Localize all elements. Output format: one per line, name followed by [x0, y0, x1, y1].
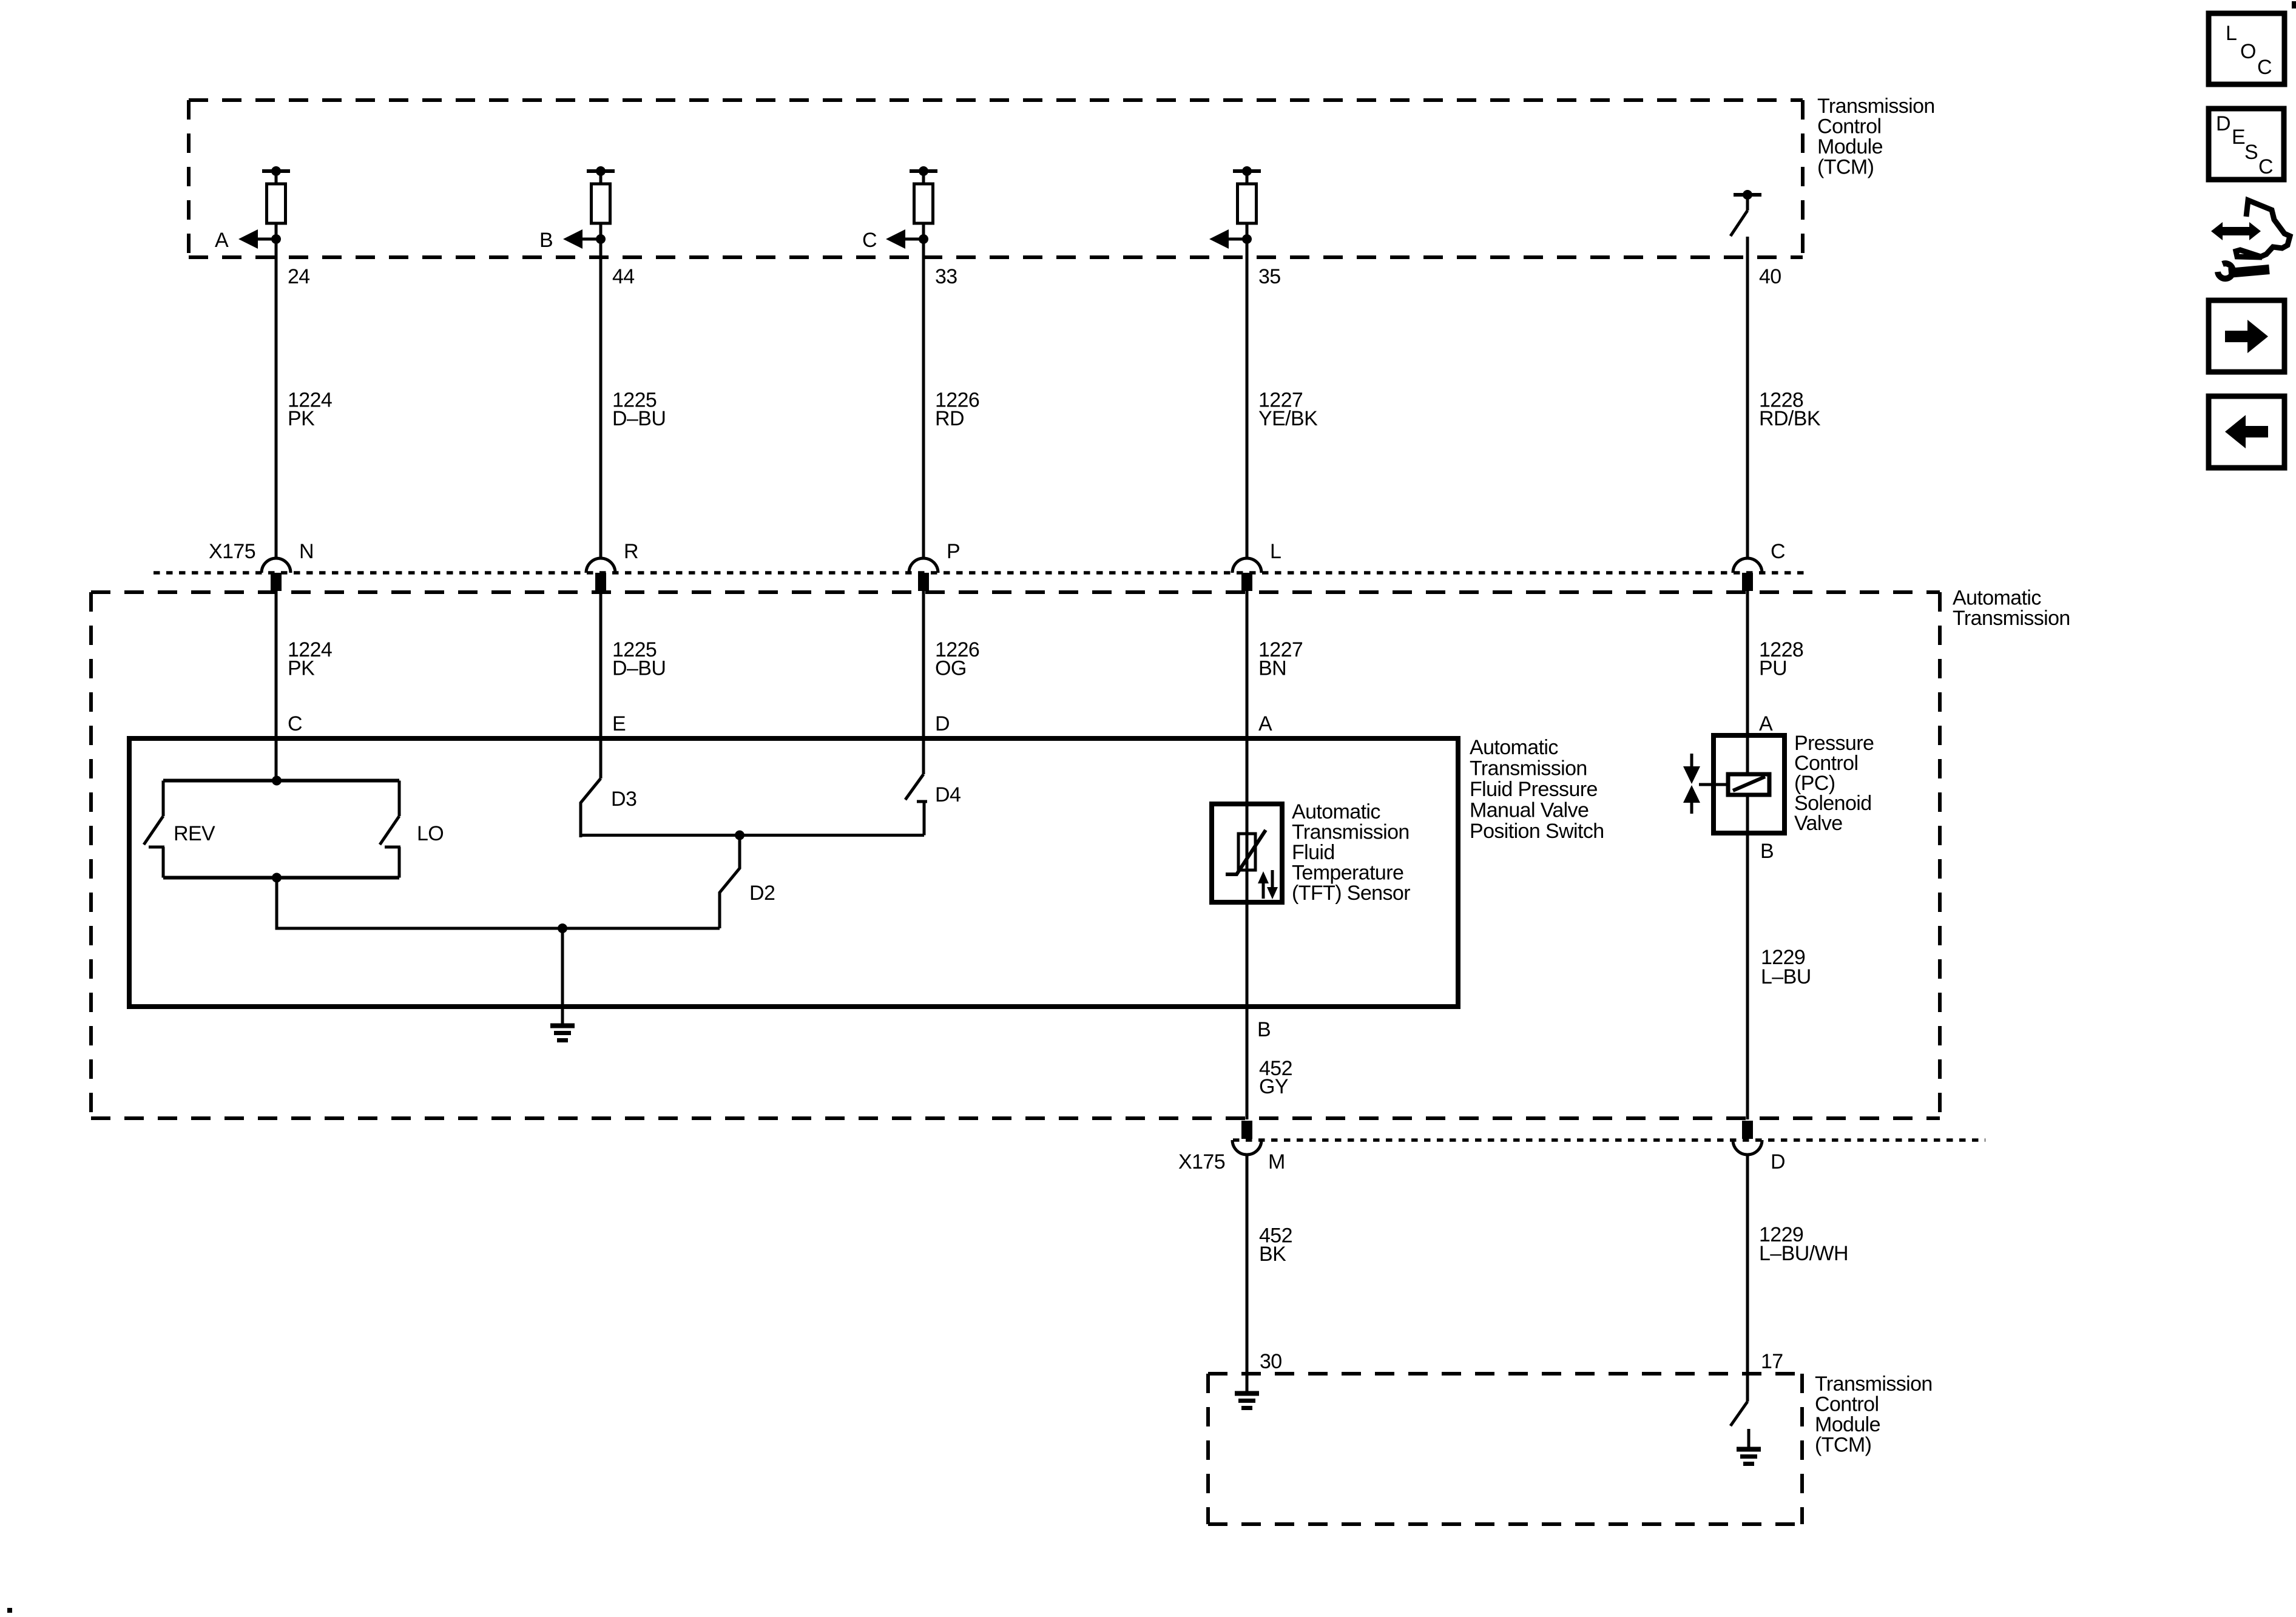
- svg-text:Valve: Valve: [1794, 812, 1843, 835]
- icon: service info (car outline, double arrow, wrench): [2211, 200, 2290, 279]
- wire inside solenoid: [1746, 735, 1749, 833]
- thermistor element: [1226, 830, 1266, 874]
- switch D3: [581, 778, 601, 837]
- wire: PC solenoid B to X175 D (circuit 1229 L-BU): [1746, 833, 1749, 1119]
- label: Automatic Transmission Fluid Pressure Manual Valve Position Switch: [1470, 736, 1604, 843]
- wire: pin 24 to X175 N (circuit 1224 PK): [275, 223, 278, 558]
- TCM module dashed box (bottom): [1208, 1374, 1802, 1524]
- svg-text:RD/BK: RD/BK: [1759, 407, 1821, 430]
- svg-text:RD: RD: [935, 407, 964, 430]
- wire label 1229 L-BU: [1761, 946, 1811, 988]
- svg-text:A: A: [215, 229, 229, 252]
- connector X175 pin M: [1232, 1121, 1261, 1155]
- solenoid coil: [1699, 774, 1769, 795]
- svg-text:D: D: [935, 712, 950, 735]
- wire label 1224 PK (lower): [288, 638, 332, 680]
- svg-text:Automatic: Automatic: [1953, 587, 2041, 610]
- svg-text:C: C: [288, 712, 302, 735]
- svg-text:C: C: [1771, 540, 1785, 563]
- Manual Valve Position Switch box: [129, 738, 1458, 1007]
- svg-text:N: N: [299, 540, 314, 563]
- svg-text:D4: D4: [935, 783, 961, 806]
- icon: next arrow button: [2209, 300, 2284, 372]
- svg-text:PU: PU: [1759, 657, 1787, 680]
- resistor (TCM driver, pin 35): [1233, 166, 1261, 223]
- svg-text:Transmission: Transmission: [1292, 821, 1410, 844]
- svg-text:Automatic: Automatic: [1292, 800, 1380, 823]
- wire: X175 N to switch pin C (circuit 1224 PK): [275, 591, 278, 781]
- wire label 1228 RD/BK (upper): [1759, 389, 1821, 431]
- junction dot (D2 node): [735, 831, 745, 840]
- svg-text:D2: D2: [749, 882, 775, 905]
- svg-text:YE/BK: YE/BK: [1258, 407, 1318, 430]
- svg-text:D: D: [2216, 112, 2231, 135]
- wire label 1228 PU (lower): [1759, 638, 1803, 680]
- Automatic Transmission dashed box: [91, 592, 1940, 1118]
- node: REV/LO parallel loop bars: [163, 781, 399, 878]
- svg-text:BK: BK: [1259, 1243, 1286, 1266]
- icon: back arrow button: [2209, 396, 2284, 468]
- switch REV: [144, 781, 164, 878]
- svg-text:PK: PK: [288, 657, 315, 680]
- wire: X175 L to TFT sensor pin A (circuit 1227 BN): [1246, 591, 1249, 1119]
- connector X175 pin L: [1232, 558, 1261, 591]
- svg-text:Transmission: Transmission: [1815, 1372, 1933, 1396]
- valve flow arrows: [1683, 754, 1700, 814]
- wire label 1227 BN (lower): [1258, 638, 1303, 680]
- ground (TCM pin 17): [1737, 1429, 1761, 1464]
- label: Transmission Control Module (TCM) top: [1817, 95, 1935, 179]
- connector X175 pin P: [909, 558, 938, 591]
- svg-text:Position Switch: Position Switch: [1470, 820, 1604, 843]
- resistor (TCM driver, pin 44): [587, 166, 615, 223]
- svg-text:Fluid Pressure: Fluid Pressure: [1470, 778, 1598, 801]
- svg-text:X175: X175: [209, 540, 255, 563]
- svg-text:30: 30: [1260, 1350, 1282, 1373]
- svg-text:44: 44: [612, 265, 635, 288]
- label: Transmission Control Module (TCM) bottom: [1815, 1372, 1933, 1457]
- wire: pin 33 to X175 P (circuit 1226 RD): [922, 223, 925, 558]
- svg-text:Temperature: Temperature: [1292, 862, 1403, 885]
- connector X175 pin R: [586, 558, 615, 591]
- wire: pin 35 to X175 L (circuit 1227 YE/BK): [1246, 223, 1249, 558]
- switch (TCM driver, pin 40): [1730, 190, 1761, 236]
- icon: LOC button: [2209, 13, 2284, 84]
- svg-text:D–BU: D–BU: [612, 657, 666, 680]
- wire: ground drop: [561, 928, 564, 1024]
- svg-text:33: 33: [935, 265, 957, 288]
- icon: DESC button: [2209, 109, 2284, 180]
- page mark (bottom left): [7, 1608, 12, 1613]
- label: Pressure Control (PC) Solenoid Valve: [1794, 732, 1874, 835]
- svg-text:REV: REV: [174, 822, 215, 845]
- svg-text:L: L: [2226, 22, 2237, 45]
- svg-text:X175: X175: [1178, 1150, 1225, 1173]
- svg-text:L: L: [1270, 540, 1281, 563]
- svg-text:40: 40: [1759, 265, 1781, 288]
- switch LO: [380, 781, 400, 878]
- svg-text:BN: BN: [1258, 657, 1286, 680]
- label: Automatic Transmission: [1953, 587, 2070, 630]
- PC solenoid valve box: [1714, 735, 1784, 833]
- svg-text:17: 17: [1761, 1350, 1783, 1373]
- connector X175 bus (top dotted line): [154, 571, 1806, 575]
- wire label 1226 OG (lower): [935, 638, 979, 680]
- svg-text:C: C: [862, 229, 877, 252]
- svg-text:S: S: [2244, 141, 2258, 164]
- svg-text:M: M: [1268, 1150, 1285, 1173]
- wire label 1225 D-BU (upper): [612, 389, 666, 431]
- svg-text:L–BU/WH: L–BU/WH: [1759, 1242, 1848, 1265]
- svg-text:O: O: [2240, 40, 2256, 63]
- svg-text:A: A: [1258, 712, 1272, 735]
- arrow (unlabeled node): [1209, 229, 1252, 249]
- svg-text:PK: PK: [288, 407, 315, 430]
- svg-text:LO: LO: [417, 822, 444, 845]
- svg-text:Transmission: Transmission: [1817, 95, 1935, 118]
- svg-text:Control: Control: [1815, 1393, 1879, 1416]
- connector X175 pin C: [1733, 558, 1762, 591]
- wire label 1227 YE/BK (upper): [1258, 389, 1318, 431]
- svg-text:D: D: [1771, 1150, 1785, 1173]
- node C arrow: [862, 229, 928, 252]
- wire: loop bottom to ground bus and D2: [277, 878, 720, 929]
- svg-text:(TCM): (TCM): [1815, 1434, 1871, 1457]
- wire label 1225 D-BU (lower): [612, 638, 666, 680]
- wire: pin 40 to X175 C (circuit 1228 RD/BK): [1746, 237, 1749, 558]
- node B arrow: [539, 229, 606, 252]
- wire label 1229 L-BU/WH: [1759, 1223, 1848, 1265]
- svg-text:Transmission: Transmission: [1470, 757, 1587, 780]
- svg-text:D3: D3: [611, 788, 636, 811]
- svg-text:R: R: [624, 540, 638, 563]
- svg-text:C: C: [2258, 155, 2274, 178]
- wire: pin 44 to X175 R (circuit 1225 D-BU): [599, 223, 603, 558]
- node A arrow: [215, 229, 281, 252]
- TFT sensor box: [1212, 804, 1282, 902]
- connector X175 pin D: [1733, 1121, 1762, 1155]
- connector X175 bus (bottom dotted line): [1233, 1138, 1985, 1142]
- svg-text:24: 24: [288, 265, 310, 288]
- ground (position switch common): [550, 1026, 575, 1041]
- wire label 452 BK: [1259, 1224, 1292, 1266]
- svg-text:A: A: [1759, 712, 1773, 735]
- svg-text:E: E: [2232, 126, 2246, 149]
- TCM module dashed box (top): [189, 100, 1803, 257]
- svg-text:(TCM): (TCM): [1817, 156, 1874, 179]
- svg-text:Module: Module: [1817, 135, 1883, 158]
- wire label 452 GY: [1259, 1057, 1292, 1098]
- wire: X175 R to switch pin E (circuit 1225 D-BU): [599, 591, 603, 778]
- svg-text:Control: Control: [1817, 115, 1881, 138]
- label: Automatic Transmission Fluid Temperature (TFT) Sensor: [1292, 800, 1410, 905]
- junction dot (loop bottom): [272, 873, 282, 883]
- sensor arrows (up/down): [1258, 870, 1278, 899]
- svg-text:C: C: [2257, 56, 2272, 79]
- svg-text:Module: Module: [1815, 1413, 1880, 1436]
- wire: X175 M to TCM pin 30 (circuit 452 BK): [1246, 1155, 1249, 1391]
- svg-text:OG: OG: [935, 657, 967, 680]
- junction dot (ground node): [558, 923, 567, 933]
- switch D4: [905, 774, 927, 836]
- svg-text:B: B: [539, 229, 553, 252]
- switch D2: [720, 836, 740, 929]
- svg-text:(TFT) Sensor: (TFT) Sensor: [1292, 882, 1410, 905]
- ground (TCM pin 30): [1235, 1394, 1259, 1408]
- svg-text:E: E: [612, 712, 626, 735]
- svg-text:L–BU: L–BU: [1761, 965, 1811, 988]
- wire label 1224 PK (upper): [288, 389, 332, 431]
- switch (TCM pin 17 to ground): [1730, 1402, 1747, 1426]
- svg-text:GY: GY: [1259, 1075, 1288, 1098]
- svg-text:Transmission: Transmission: [1953, 607, 2070, 630]
- svg-text:35: 35: [1258, 265, 1281, 288]
- svg-text:Fluid: Fluid: [1292, 841, 1335, 864]
- wire: X175 C to PC solenoid pin A (circuit 1228 PU): [1746, 591, 1749, 735]
- svg-text:B: B: [1760, 840, 1774, 863]
- svg-text:P: P: [947, 540, 960, 563]
- junction dot (loop top): [272, 776, 282, 786]
- resistor (TCM driver, pin 33): [910, 166, 937, 223]
- wire label 1226 RD (upper): [935, 389, 979, 431]
- resistor (TCM driver, pin 24): [262, 166, 290, 223]
- wire: X175 D to TCM pin 17 (circuit 1229 L-BU/WH): [1746, 1155, 1749, 1402]
- svg-text:B: B: [1257, 1018, 1271, 1041]
- svg-text:Manual Valve: Manual Valve: [1470, 799, 1589, 822]
- page mark (top right): [2292, 1, 2296, 8]
- wire: D3/D4 common bus: [581, 834, 924, 837]
- svg-text:Automatic: Automatic: [1470, 736, 1558, 759]
- svg-text:D–BU: D–BU: [612, 407, 666, 430]
- connector X175 pin N: [262, 558, 291, 591]
- wire: X175 P to switch pin D (circuit 1226 OG): [922, 591, 925, 774]
